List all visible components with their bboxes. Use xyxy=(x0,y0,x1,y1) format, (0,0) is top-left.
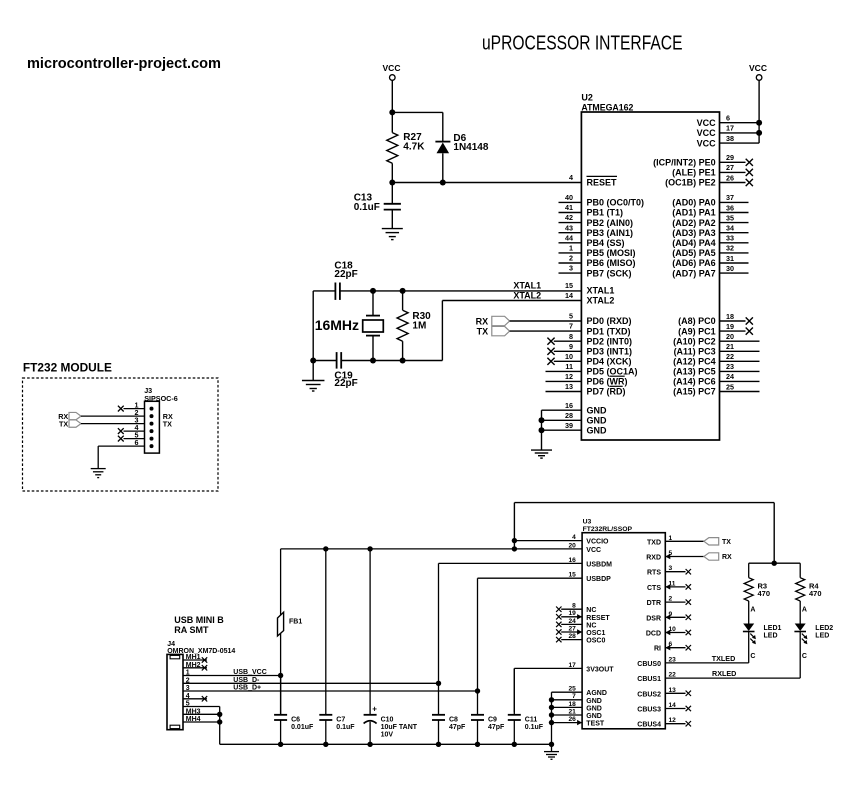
svg-text:1M: 1M xyxy=(412,320,426,331)
svg-text:CBUS0: CBUS0 xyxy=(637,661,661,668)
svg-text:C10: C10 xyxy=(381,716,394,723)
svg-text:C: C xyxy=(750,653,755,660)
svg-text:(A12) PC4: (A12) PC4 xyxy=(673,357,716,367)
svg-text:470: 470 xyxy=(809,589,822,598)
svg-text:GND: GND xyxy=(586,713,602,720)
svg-text:38: 38 xyxy=(726,134,734,143)
svg-text:microcontroller-project.com: microcontroller-project.com xyxy=(27,56,221,72)
svg-text:VCC: VCC xyxy=(383,63,401,73)
svg-text:RXD: RXD xyxy=(646,555,661,562)
svg-text:43: 43 xyxy=(565,223,573,232)
svg-text:10V: 10V xyxy=(381,731,394,738)
svg-text:LED: LED xyxy=(815,632,829,639)
svg-text:0.01uF: 0.01uF xyxy=(291,724,314,731)
svg-text:21: 21 xyxy=(726,342,734,351)
svg-text:C6: C6 xyxy=(291,716,300,723)
svg-text:6: 6 xyxy=(726,114,730,123)
svg-text:TX: TX xyxy=(722,539,731,546)
svg-text:DCD: DCD xyxy=(646,631,661,638)
svg-text:uPROCESSOR INTERFACE: uPROCESSOR INTERFACE xyxy=(482,33,683,55)
svg-text:RX: RX xyxy=(476,316,489,326)
svg-text:TEST: TEST xyxy=(586,721,605,728)
svg-text:PB0 (OC0/T0): PB0 (OC0/T0) xyxy=(587,198,645,208)
svg-text:(AD6) PA6: (AD6) PA6 xyxy=(672,258,715,268)
svg-text:33: 33 xyxy=(726,234,734,243)
svg-text:VCCIO: VCCIO xyxy=(586,539,609,546)
svg-text:GND: GND xyxy=(586,705,602,712)
svg-text:3V3OUT: 3V3OUT xyxy=(586,666,614,673)
svg-text:OSC0: OSC0 xyxy=(586,638,605,645)
svg-text:OSC1: OSC1 xyxy=(586,630,605,637)
svg-text:RA SMT: RA SMT xyxy=(174,625,209,635)
svg-text:31: 31 xyxy=(726,254,734,263)
svg-text:USB_D-: USB_D- xyxy=(233,677,260,684)
svg-text:14: 14 xyxy=(565,291,573,300)
svg-text:PB3 (AIN1): PB3 (AIN1) xyxy=(587,228,634,238)
svg-text:25: 25 xyxy=(726,382,734,391)
svg-text:1: 1 xyxy=(569,244,573,253)
svg-text:12: 12 xyxy=(565,372,573,381)
svg-text:TXD: TXD xyxy=(647,539,661,546)
svg-text:22pF: 22pF xyxy=(334,378,357,389)
svg-text:22: 22 xyxy=(726,352,734,361)
svg-text:VCC: VCC xyxy=(697,118,717,128)
svg-text:PB4 (SS): PB4 (SS) xyxy=(587,238,625,248)
svg-text:CBUS3: CBUS3 xyxy=(637,707,661,714)
svg-text:PD7 (RD): PD7 (RD) xyxy=(587,387,626,397)
svg-text:PB2 (AIN0): PB2 (AIN0) xyxy=(587,218,634,228)
svg-text:A: A xyxy=(750,606,755,613)
svg-text:19: 19 xyxy=(726,322,734,331)
svg-text:PB6 (MISO): PB6 (MISO) xyxy=(587,258,636,268)
svg-text:(A10) PC2: (A10) PC2 xyxy=(673,336,716,346)
svg-text:34: 34 xyxy=(726,224,734,233)
svg-text:29: 29 xyxy=(726,153,734,162)
svg-text:42: 42 xyxy=(565,213,573,222)
svg-text:(A8) PC0: (A8) PC0 xyxy=(678,316,716,326)
svg-text:(A9) PC1: (A9) PC1 xyxy=(678,326,716,336)
svg-text:C7: C7 xyxy=(336,716,345,723)
svg-text:GND: GND xyxy=(586,698,602,705)
svg-text:47pF: 47pF xyxy=(449,724,466,731)
svg-text:USB MINI B: USB MINI B xyxy=(174,615,224,625)
svg-text:VCC: VCC xyxy=(697,138,717,148)
svg-text:NC: NC xyxy=(586,607,596,614)
svg-text:23: 23 xyxy=(726,362,734,371)
svg-text:36: 36 xyxy=(726,203,734,212)
svg-text:TX: TX xyxy=(163,420,172,429)
svg-text:PD6 (WR): PD6 (WR) xyxy=(587,377,628,387)
svg-text:4: 4 xyxy=(569,173,573,182)
svg-text:32: 32 xyxy=(726,244,734,253)
svg-text:(AD5) PA5: (AD5) PA5 xyxy=(672,248,715,258)
svg-text:3: 3 xyxy=(569,264,573,273)
svg-text:PD2 (INT0): PD2 (INT0) xyxy=(587,336,633,346)
svg-text:PD5 (OC1A): PD5 (OC1A) xyxy=(587,367,638,377)
svg-text:0.1uF: 0.1uF xyxy=(525,724,544,731)
svg-text:(ICP/INT2) PE0: (ICP/INT2) PE0 xyxy=(653,158,716,168)
svg-text:GND: GND xyxy=(587,425,608,435)
svg-text:16MHz: 16MHz xyxy=(315,317,359,333)
svg-text:GND: GND xyxy=(587,416,608,426)
svg-text:USBDM: USBDM xyxy=(586,561,612,568)
svg-text:FT232RL/SSOP: FT232RL/SSOP xyxy=(583,526,633,533)
svg-text:2: 2 xyxy=(569,254,573,263)
svg-text:DSR: DSR xyxy=(646,615,661,622)
svg-text:(A14) PC6: (A14) PC6 xyxy=(673,377,716,387)
svg-text:(AD0) PA0: (AD0) PA0 xyxy=(672,198,715,208)
svg-text:RI: RI xyxy=(654,646,661,653)
svg-text:18: 18 xyxy=(726,312,734,321)
svg-text:VCC: VCC xyxy=(697,128,717,138)
svg-text:39: 39 xyxy=(565,421,573,430)
svg-text:16: 16 xyxy=(565,401,573,410)
svg-text:AGND: AGND xyxy=(586,690,607,697)
svg-text:30: 30 xyxy=(726,264,734,273)
svg-text:8: 8 xyxy=(569,332,573,341)
svg-text:9: 9 xyxy=(569,342,573,351)
svg-text:CBUS1: CBUS1 xyxy=(637,676,661,683)
svg-text:24: 24 xyxy=(726,372,734,381)
svg-text:PB1 (T1): PB1 (T1) xyxy=(587,208,624,218)
svg-text:VCC: VCC xyxy=(586,547,601,554)
svg-text:A: A xyxy=(802,606,807,613)
svg-text:10: 10 xyxy=(565,352,573,361)
svg-text:PD1 (TXD): PD1 (TXD) xyxy=(587,326,631,336)
svg-text:TXLED: TXLED xyxy=(712,654,736,663)
svg-text:7: 7 xyxy=(569,322,573,331)
svg-text:PD0 (RXD): PD0 (RXD) xyxy=(587,316,632,326)
svg-text:C9: C9 xyxy=(488,716,497,723)
svg-text:C8: C8 xyxy=(449,716,458,723)
svg-text:(A11) PC3: (A11) PC3 xyxy=(674,347,716,357)
svg-text:(AD7) PA7: (AD7) PA7 xyxy=(672,268,715,278)
svg-text:FT232 MODULE: FT232 MODULE xyxy=(23,363,112,375)
svg-text:(AD1) PA1: (AD1) PA1 xyxy=(672,208,715,218)
svg-text:20: 20 xyxy=(726,332,734,341)
svg-text:U3: U3 xyxy=(583,519,592,526)
svg-text:26: 26 xyxy=(726,173,734,182)
svg-text:PD3 (INT1): PD3 (INT1) xyxy=(587,347,633,357)
svg-text:C: C xyxy=(802,653,807,660)
svg-text:0.1uF: 0.1uF xyxy=(354,202,380,213)
svg-text:CBUS4: CBUS4 xyxy=(637,722,661,729)
svg-text:11: 11 xyxy=(565,362,573,371)
svg-text:35: 35 xyxy=(726,213,734,222)
svg-text:LED: LED xyxy=(764,632,778,639)
svg-text:1N4148: 1N4148 xyxy=(453,142,488,153)
svg-text:XTAL2: XTAL2 xyxy=(587,296,615,306)
svg-text:PD4 (XCK): PD4 (XCK) xyxy=(587,357,632,367)
svg-text:(ALE) PE1: (ALE) PE1 xyxy=(672,168,716,178)
svg-text:(AD3) PA3: (AD3) PA3 xyxy=(672,228,715,238)
svg-text:LED2: LED2 xyxy=(815,625,833,632)
svg-text:17: 17 xyxy=(726,124,734,133)
svg-text:FB1: FB1 xyxy=(289,618,302,625)
svg-text:(AD2) PA2: (AD2) PA2 xyxy=(672,218,715,228)
svg-text:ATMEGA162: ATMEGA162 xyxy=(581,102,633,112)
svg-text:USBDP: USBDP xyxy=(586,576,611,583)
svg-text:0.1uF: 0.1uF xyxy=(336,724,355,731)
svg-text:TX: TX xyxy=(59,420,68,429)
svg-text:RESET: RESET xyxy=(586,615,610,622)
svg-text:+: + xyxy=(372,705,377,714)
svg-text:(AD4) PA4: (AD4) PA4 xyxy=(672,238,715,248)
svg-text:13: 13 xyxy=(565,382,573,391)
svg-text:(A13) PC5: (A13) PC5 xyxy=(673,367,716,377)
svg-text:(OC1B) PE2: (OC1B) PE2 xyxy=(665,178,716,188)
svg-text:GND: GND xyxy=(587,405,608,415)
svg-text:SIPSOC-6: SIPSOC-6 xyxy=(144,394,178,403)
svg-text:RTS: RTS xyxy=(647,570,661,577)
svg-text:27: 27 xyxy=(726,163,734,172)
svg-text:10uF TANT: 10uF TANT xyxy=(381,724,418,731)
svg-text:NC: NC xyxy=(586,622,596,629)
svg-text:37: 37 xyxy=(726,193,734,202)
svg-text:RXLED: RXLED xyxy=(712,669,736,678)
svg-text:15: 15 xyxy=(565,281,573,290)
svg-text:DTR: DTR xyxy=(647,600,661,607)
svg-text:XTAL2: XTAL2 xyxy=(513,290,541,300)
svg-text:CTS: CTS xyxy=(647,585,661,592)
svg-text:47pF: 47pF xyxy=(488,724,505,731)
svg-text:XTAL1: XTAL1 xyxy=(587,286,615,296)
svg-text:41: 41 xyxy=(565,203,573,212)
svg-text:(A15) PC7: (A15) PC7 xyxy=(673,387,716,397)
svg-text:XTAL1: XTAL1 xyxy=(513,281,541,291)
svg-text:PB7 (SCK): PB7 (SCK) xyxy=(587,268,632,278)
svg-text:RX: RX xyxy=(722,554,732,561)
svg-text:PB5 (MOSI): PB5 (MOSI) xyxy=(587,248,636,258)
svg-text:40: 40 xyxy=(565,193,573,202)
svg-text:4.7K: 4.7K xyxy=(403,142,425,153)
svg-text:RESET: RESET xyxy=(587,178,618,188)
svg-text:TX: TX xyxy=(477,327,489,337)
svg-text:C11: C11 xyxy=(525,716,538,723)
svg-text:5: 5 xyxy=(569,312,573,321)
svg-text:J4: J4 xyxy=(167,641,175,648)
svg-text:22pF: 22pF xyxy=(334,269,357,280)
svg-text:U2: U2 xyxy=(581,93,593,103)
svg-text:USB_VCC: USB_VCC xyxy=(233,669,266,676)
svg-text:44: 44 xyxy=(565,233,573,242)
svg-text:USB_D+: USB_D+ xyxy=(233,685,261,692)
svg-text:VCC: VCC xyxy=(749,63,767,73)
svg-text:470: 470 xyxy=(758,589,771,598)
svg-text:LED1: LED1 xyxy=(764,625,782,632)
svg-text:28: 28 xyxy=(565,411,573,420)
svg-text:CBUS2: CBUS2 xyxy=(637,691,661,698)
